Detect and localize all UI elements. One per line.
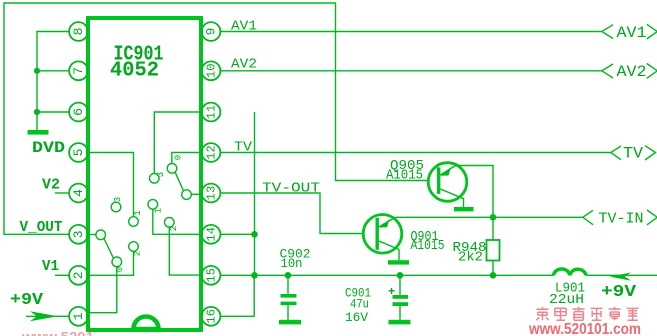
switch S1B contact 2	[165, 218, 175, 228]
svg-text:V1: V1	[42, 258, 59, 275]
pin 2	[69, 266, 88, 285]
resistor R948	[487, 217, 500, 275]
svg-text:TV: TV	[623, 145, 643, 163]
pin 9	[202, 22, 221, 41]
svg-text:15: 15	[205, 268, 219, 282]
svg-text:2: 2	[71, 271, 86, 279]
pin 12	[202, 143, 221, 162]
wire pin7 stub	[37, 70, 69, 72]
svg-text:3: 3	[156, 172, 166, 177]
svg-text:8: 8	[71, 28, 86, 36]
node connector TV-IN	[583, 210, 657, 227]
svg-text:7: 7	[71, 67, 86, 75]
node junction pin14 bus	[251, 231, 258, 238]
pin 10	[202, 61, 221, 80]
svg-text:10: 10	[205, 64, 219, 78]
svg-text:+9V: +9V	[601, 283, 637, 302]
ground C901 ground bar	[389, 320, 411, 325]
svg-text:4052: 4052	[110, 60, 159, 83]
ground DVD-bus ground bar	[28, 130, 49, 135]
switch S1B contact 0	[167, 164, 177, 174]
svg-text:AV1: AV1	[231, 19, 257, 35]
transistor Q905	[428, 163, 467, 207]
wire switch contact 0 down to pin1 internal	[88, 267, 117, 313]
svg-text:2: 2	[133, 251, 143, 256]
svg-text:0: 0	[174, 155, 184, 160]
node connector TV	[611, 145, 656, 163]
svg-text:12: 12	[205, 145, 219, 159]
wire V_OUT net: pin3 left to edge, up, along top, down to Q905 base	[4, 3, 429, 234]
node junction rail-bus	[251, 272, 258, 279]
pin 7	[69, 61, 88, 80]
node connector AV2	[602, 63, 657, 81]
svg-text:1: 1	[71, 312, 86, 320]
wire AV2 from pin10 to connector	[220, 70, 601, 72]
wire pin2 internal to switch contact 2 stem	[88, 251, 134, 275]
node connector AV1	[602, 24, 657, 42]
wire AV1 from pin9 to connector	[220, 31, 601, 33]
op-amp IC901 body outline	[88, 18, 201, 330]
wire S1B contact 2 to pin15 internal	[169, 227, 201, 275]
wire S1B wiper arm	[175, 172, 183, 191]
node IC901 bottom notch	[134, 317, 159, 330]
switch S1A contact 1	[129, 217, 139, 227]
svg-text:AV1: AV1	[617, 24, 647, 42]
switch S1A contact 0	[112, 257, 122, 267]
svg-text:www.520101.com: www.520101.com	[528, 321, 641, 336]
wire bus pin11-net vertical	[254, 112, 256, 275]
pin 1	[69, 307, 88, 326]
wire TV from pin12 to connector	[220, 152, 610, 154]
wire V1 stub to pin2	[55, 274, 69, 276]
node +9V supply arrow left	[30, 311, 58, 321]
switch S1A contact 3	[111, 202, 121, 212]
switch S1B contact 1	[148, 200, 158, 210]
pin 4	[69, 184, 88, 203]
svg-text:AV2: AV2	[231, 57, 257, 73]
transistor Q901	[363, 215, 402, 261]
svg-text:5: 5	[71, 149, 86, 157]
node junction rail-R948	[490, 272, 497, 279]
svg-text:9: 9	[204, 28, 219, 36]
pin 13	[202, 184, 221, 203]
svg-text:+9V: +9V	[10, 291, 44, 310]
svg-text:13: 13	[205, 186, 219, 200]
svg-text:TV-IN: TV-IN	[599, 210, 644, 227]
ground Q905 ground bar	[454, 207, 474, 211]
ground Q901 ground bar	[388, 260, 409, 264]
node junction at pin7 bus	[34, 68, 40, 74]
pin 16	[202, 307, 221, 326]
wire S1B pole stub to pin13	[191, 193, 201, 195]
capacitor C902	[281, 275, 297, 320]
pin 15	[202, 266, 221, 285]
svg-text:4: 4	[71, 189, 86, 197]
svg-text:A1015: A1015	[411, 238, 445, 254]
pin 5	[69, 143, 88, 162]
node junction TV-IN R948	[490, 214, 497, 221]
svg-text:2k2: 2k2	[458, 250, 483, 266]
pin 8	[69, 22, 88, 41]
svg-text:TV-OUT: TV-OUT	[262, 181, 320, 197]
svg-text:V_OUT: V_OUT	[20, 219, 63, 236]
svg-text:TV: TV	[234, 140, 253, 156]
wire S1A wiper arm	[104, 238, 113, 258]
wire pin8 to vertical bus	[37, 32, 69, 131]
wire S1B contact 1 to pin14 internal	[153, 209, 201, 234]
capacitor C901 electrolytic	[393, 275, 409, 320]
watermark chinese characters	[536, 307, 638, 320]
svg-text:16V: 16V	[345, 310, 368, 325]
wire left mux pole stub from pin3	[88, 234, 96, 236]
wire TV-OUT from pin13 to Q901 base	[220, 193, 362, 234]
svg-text:3: 3	[71, 230, 86, 238]
wire V2 stub to pin4	[55, 192, 69, 194]
svg-text:10n: 10n	[281, 256, 303, 271]
svg-text:6: 6	[71, 108, 86, 116]
svg-text:+: +	[388, 285, 395, 299]
wire +9V rail from pin15 to inductor	[220, 274, 553, 276]
wire pin5 DVD internal to switch contact 1	[88, 153, 134, 217]
pin 6	[69, 103, 88, 122]
wire pin12 internal stub to switch contact 0 of S1B	[172, 153, 201, 164]
wire pin16 up to rail	[220, 275, 254, 316]
svg-text:1: 1	[154, 208, 164, 213]
wire pin11 internal to switch contact 3 of S1B	[154, 112, 201, 174]
svg-text:2: 2	[169, 226, 179, 231]
node junction rail-C901	[397, 272, 404, 279]
svg-text:AV2: AV2	[617, 63, 647, 81]
inductor L901	[554, 269, 587, 275]
svg-text:14: 14	[205, 227, 219, 241]
switch S1B contact 3	[150, 174, 160, 184]
node junction at pin6 bus	[34, 109, 40, 115]
wire pin6 stub	[37, 111, 69, 113]
wire +9V rail right of inductor	[586, 274, 657, 276]
switch S1A contact 2	[129, 242, 139, 252]
svg-text:22uH: 22uH	[549, 292, 584, 308]
pin 14	[202, 225, 221, 244]
node +9V supply arrow right	[610, 273, 632, 281]
svg-text:A1015: A1015	[386, 168, 423, 184]
svg-text:www.5201: www.5201	[21, 329, 94, 336]
switch S1A pole	[96, 230, 106, 240]
ground C902 ground bar	[279, 320, 301, 325]
wire Q905 emitter to TV-IN	[456, 166, 494, 218]
wire pin14 to bus	[220, 233, 254, 235]
wire +9V arrow tail to pin1	[26, 315, 69, 317]
wire TV-IN net from Q901 emitter to connector	[395, 216, 582, 218]
pin 3	[69, 225, 88, 244]
switch S1B pole	[182, 190, 192, 200]
svg-text:0: 0	[115, 267, 125, 272]
svg-text:3: 3	[113, 197, 123, 202]
svg-text:16: 16	[205, 309, 219, 323]
svg-text:11: 11	[205, 105, 219, 119]
svg-text:DVD: DVD	[32, 139, 65, 157]
svg-text:V2: V2	[42, 177, 60, 194]
node junction rail-C902	[285, 272, 292, 279]
pin 11	[202, 103, 221, 122]
svg-text:1: 1	[133, 210, 143, 215]
